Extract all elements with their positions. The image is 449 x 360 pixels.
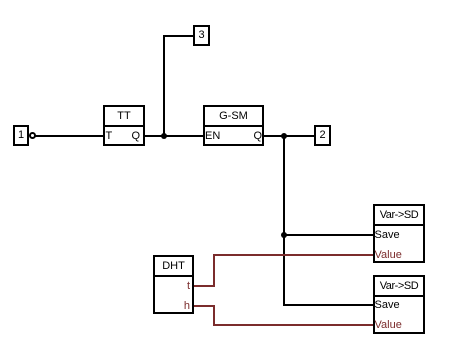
pin label h [170, 299, 190, 313]
wire to Var->SD 2 Save [283, 304, 373, 306]
junction dot at G-SM.Q net [281, 133, 287, 139]
pin label t [170, 279, 190, 293]
wire horizontal to connector 3 [163, 35, 193, 37]
connector 3 [193, 25, 210, 46]
pin label Q (TT) [118, 129, 140, 143]
connector 1 [13, 125, 29, 146]
junction dot at TT.Q net [161, 133, 167, 139]
analog wire DHT.h horizontal [194, 305, 215, 307]
wire vertical to connector 3 [163, 35, 165, 137]
pin label Q (G-SM) [239, 129, 262, 143]
wire to Var->SD 1 Save [283, 234, 373, 236]
block TT (T-trigger) [103, 105, 145, 146]
block DHT sensor [153, 255, 194, 314]
pin label Value (1) [375, 248, 402, 262]
junction dot at Save branch [281, 232, 287, 238]
block Var->SD 1 [373, 204, 425, 263]
analog wire DHT.t to Var->SD 1 Value [213, 254, 373, 256]
analog wire DHT.h to Var->SD 2 Value [213, 324, 373, 326]
analog wire DHT.t vertical up [213, 254, 215, 287]
inversion circle on connector 1 output [29, 132, 36, 139]
connector 2 [314, 125, 331, 146]
pin label EN [205, 129, 220, 143]
block G-SM (generator) [203, 105, 264, 146]
pin label Value (2) [375, 318, 402, 332]
wire connector1 to TT.T [34, 135, 103, 137]
wire vertical down from G-SM.Q net [283, 136, 285, 306]
pin label Save (1) [375, 228, 400, 242]
wire G-SM.Q to connector 2 [264, 135, 314, 137]
analog wire DHT.h vertical down [213, 305, 215, 326]
wire TT.Q to G-SM.EN [145, 135, 203, 137]
pin label Save (2) [375, 298, 400, 312]
analog wire DHT.t horizontal [194, 285, 215, 287]
pin label T [106, 129, 113, 143]
block Var->SD 2 [373, 275, 425, 334]
